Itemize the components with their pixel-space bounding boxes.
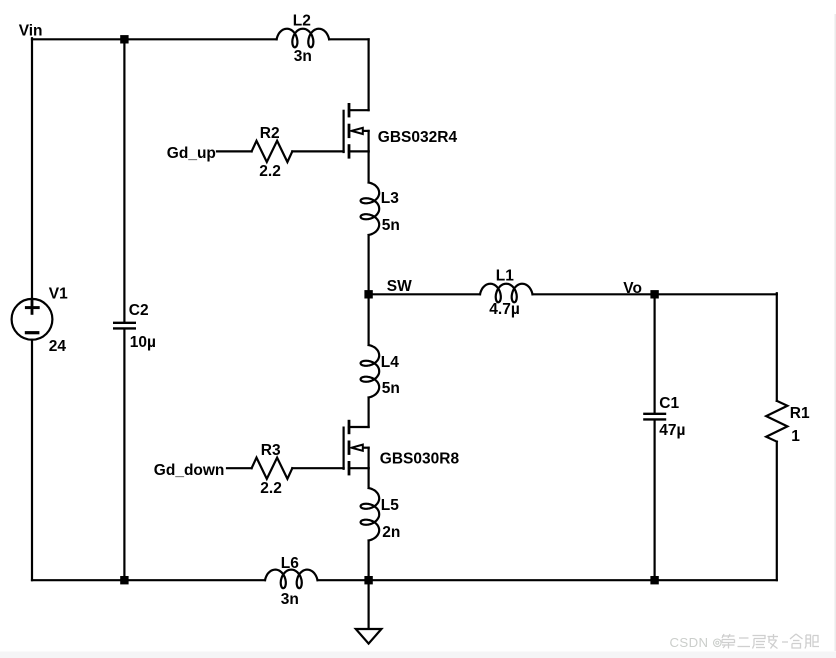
resistor R1 xyxy=(766,401,787,442)
svg-text:24: 24 xyxy=(49,338,67,355)
svg-text:47µ: 47µ xyxy=(659,422,685,439)
svg-text:5n: 5n xyxy=(382,380,400,397)
wire bottom rail: L6 to right xyxy=(318,579,777,581)
svg-text:GBS032R4: GBS032R4 xyxy=(378,129,458,146)
wire R1 upper lead xyxy=(776,293,778,401)
svg-text:2.2: 2.2 xyxy=(259,163,281,180)
node Vo junction xyxy=(650,290,658,298)
svg-text:3n: 3n xyxy=(294,48,312,65)
wire lower source to L5 xyxy=(368,468,370,488)
svg-text:L6: L6 xyxy=(281,555,299,572)
inductor L1 xyxy=(480,284,533,303)
svg-text:SW: SW xyxy=(387,278,412,295)
wire top rail: L2 to drain corner xyxy=(329,38,369,40)
resistor R3 xyxy=(252,458,293,479)
right edge line xyxy=(834,14,836,651)
wire Gd_up lead to R2 xyxy=(217,150,252,152)
svg-text:L1: L1 xyxy=(496,268,514,285)
svg-text:R3: R3 xyxy=(261,442,281,459)
inductor L3 xyxy=(361,183,380,236)
capacitor C2 xyxy=(114,323,135,329)
svg-text:L5: L5 xyxy=(381,497,399,514)
watermark @ xyxy=(714,639,722,647)
wire SW down to L4 xyxy=(368,294,370,345)
svg-text:L2: L2 xyxy=(293,12,311,29)
wire C1 rail lower xyxy=(653,421,655,580)
wire left rail lower (V1 bottom to bottom rail) xyxy=(31,340,33,581)
svg-text:Gd_up: Gd_up xyxy=(167,145,216,162)
wire top rail: Vin corner to L2 xyxy=(32,38,277,40)
wire L1 to R1 top corner xyxy=(533,293,777,295)
svg-text:3n: 3n xyxy=(281,591,299,608)
inductor L6 xyxy=(265,570,318,589)
svg-text:C1: C1 xyxy=(659,395,679,412)
transistor upper NMOS GBS032R4 xyxy=(344,104,369,157)
wire C1 rail upper xyxy=(653,294,655,413)
wire R2 to upper MOSFET gate xyxy=(292,150,343,152)
wire left rail upper (Vin down into V1, forms + vertical) xyxy=(31,38,33,313)
svg-text:Vin: Vin xyxy=(19,23,43,40)
svg-text:R1: R1 xyxy=(790,405,810,422)
wire C2 rail upper xyxy=(123,39,125,322)
svg-text:Vo: Vo xyxy=(623,280,642,297)
bottom strip xyxy=(0,652,836,658)
svg-text:2.2: 2.2 xyxy=(260,480,282,497)
svg-text:2n: 2n xyxy=(382,524,400,541)
inductor L4 xyxy=(361,345,380,398)
wire drain vertical into upper MOSFET xyxy=(368,39,370,110)
svg-text:V1: V1 xyxy=(49,286,68,303)
node junction Vin/C2 top xyxy=(120,35,128,43)
svg-text:1: 1 xyxy=(791,428,800,445)
svg-text:C2: C2 xyxy=(129,302,149,319)
wire bottom rail: left to L6 xyxy=(32,579,265,581)
node junction ground/bottom rail xyxy=(364,576,372,584)
watermark chinese text strokes xyxy=(722,634,819,649)
capacitor C1 xyxy=(644,414,665,420)
transistor lower NMOS GBS030R8 xyxy=(344,421,369,474)
wire SW to L1 xyxy=(369,293,480,295)
voltage source V1 xyxy=(12,299,53,340)
node junction C1 bottom xyxy=(650,576,658,584)
inductor L2 xyxy=(277,29,330,48)
wire L4 to lower MOSFET drain xyxy=(368,398,370,428)
svg-text:L3: L3 xyxy=(381,190,399,207)
svg-text:R2: R2 xyxy=(260,125,280,142)
wire L3 to SW node xyxy=(368,235,370,294)
svg-text:L4: L4 xyxy=(381,354,399,371)
wire R1 lower lead xyxy=(776,442,778,581)
wire C2 rail lower xyxy=(123,329,125,580)
wire Gd_down lead to R3 xyxy=(227,467,252,469)
inductor L5 xyxy=(361,488,380,541)
wire ground stub xyxy=(368,580,370,629)
svg-text:Gd_down: Gd_down xyxy=(154,462,225,479)
svg-text:4.7µ: 4.7µ xyxy=(489,301,519,318)
wire upper source to L3 xyxy=(368,151,370,182)
node junction C2 bottom xyxy=(120,576,128,584)
node SW junction xyxy=(364,290,372,298)
svg-text:5n: 5n xyxy=(382,217,400,234)
wire R3 to lower MOSFET gate xyxy=(292,467,343,469)
wire L5 to bottom rail xyxy=(368,541,370,581)
svg-text:CSDN: CSDN xyxy=(670,635,709,650)
svg-text:GBS030R8: GBS030R8 xyxy=(380,450,460,467)
svg-text:10µ: 10µ xyxy=(130,334,156,351)
ground symbol xyxy=(356,629,382,644)
resistor R2 xyxy=(252,141,293,162)
